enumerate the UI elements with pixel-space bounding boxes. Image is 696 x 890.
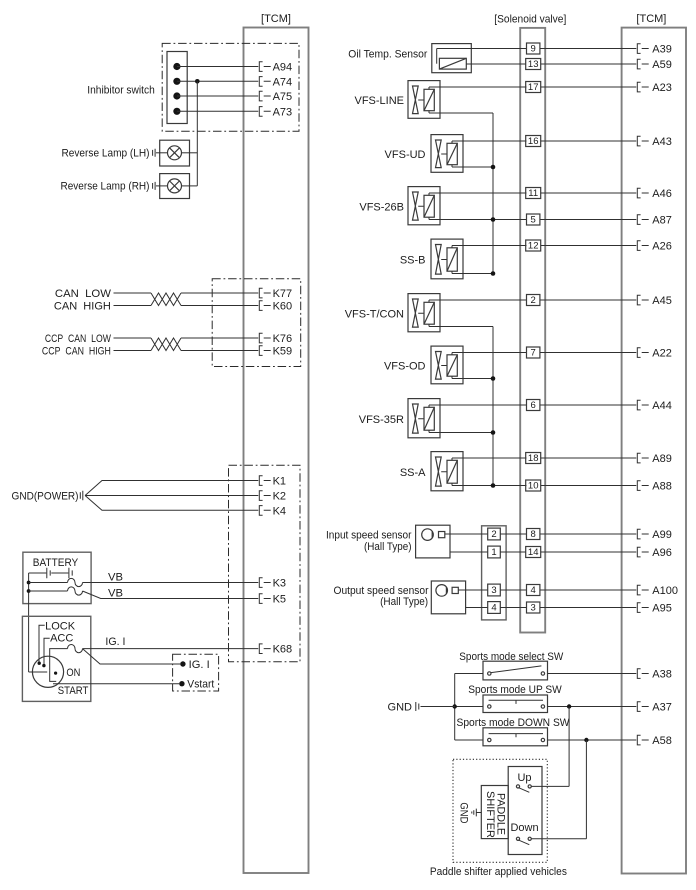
svg-text:A87: A87	[652, 215, 672, 227]
wire IG.I branch to node	[83, 649, 181, 664]
svg-text:3: 3	[531, 603, 536, 614]
junction bus junction VFS-OD	[491, 376, 496, 381]
svg-text:1: 1	[491, 547, 496, 558]
wire battery to fuse VB1	[29, 582, 68, 584]
inhibitor switch body	[167, 52, 187, 124]
wire pin 18 to A89	[541, 457, 637, 459]
paddle down switch	[516, 837, 531, 845]
wire pin 12 to A26	[541, 245, 637, 247]
left TCM module box	[244, 28, 309, 874]
svg-text:A89: A89	[652, 453, 672, 465]
wire pin 3 to A95	[540, 607, 636, 609]
connector pin A75	[259, 91, 270, 101]
wire pin 1 to pin 14	[500, 551, 525, 553]
connector pin A99	[637, 529, 648, 539]
inhibitor switch contact 1	[173, 63, 180, 70]
svg-text:(Hall Type): (Hall Type)	[380, 596, 428, 608]
wire START to Vstart node	[53, 683, 179, 685]
svg-text:GND: GND	[388, 701, 413, 713]
svg-text:11: 11	[528, 188, 538, 199]
connector pin A100	[637, 585, 648, 595]
wire GND(POWER) to K2	[85, 495, 258, 497]
svg-text:Reverse Lamp (LH): Reverse Lamp (LH)	[62, 148, 150, 160]
svg-text:SHIFTER: SHIFTER	[484, 791, 496, 838]
pin 9 solenoid valve connector	[527, 43, 540, 55]
svg-text:IG. I: IG. I	[105, 636, 125, 648]
svg-text:K5: K5	[273, 594, 286, 606]
wire CCP CAN LOW to K76	[181, 337, 258, 339]
ignition switch rotor	[32, 656, 63, 687]
connector pin A58	[637, 735, 648, 745]
wire DOWN SW to A58	[548, 739, 637, 741]
wire CCP CAN HIGH to K59	[181, 350, 258, 352]
svg-text:VFS-LINE: VFS-LINE	[354, 95, 404, 107]
paddle up switch	[516, 785, 531, 792]
solenoid valve SS-A	[431, 452, 463, 491]
wire reverse lamp RH lead-in	[156, 185, 168, 187]
svg-text:Inhibitor switch: Inhibitor switch	[87, 84, 155, 96]
junction battery bus tap 2	[27, 589, 31, 593]
speed sensor connector column	[482, 526, 507, 620]
svg-text:K59: K59	[273, 346, 293, 358]
svg-text:A88: A88	[652, 481, 672, 493]
junction ACC contact	[42, 664, 45, 667]
wire pin 2 to pin 8	[500, 533, 526, 535]
svg-text:Paddle shifter applied vehicle: Paddle shifter applied vehicles	[430, 866, 567, 878]
solenoid ground bus segment 2	[492, 327, 494, 486]
junction node reverse-lamp tap on A74 wire	[195, 79, 200, 84]
svg-text:8: 8	[531, 529, 536, 540]
svg-text:GND(POWER): GND(POWER)	[12, 490, 79, 502]
ground mark switches	[416, 702, 419, 711]
solenoid valve VFS-26B	[408, 187, 440, 225]
wire VFS-UD to solenoid ground bus	[452, 166, 493, 168]
pin 17 solenoid valve connector	[526, 82, 541, 94]
svg-text:IG. I: IG. I	[189, 659, 210, 671]
svg-text:A99: A99	[652, 529, 672, 541]
svg-text:A43: A43	[652, 136, 672, 148]
wire pin 8 to A99	[540, 533, 636, 535]
svg-text:VFS-UD: VFS-UD	[385, 149, 426, 161]
svg-text:Vstart: Vstart	[187, 679, 214, 691]
svg-text:CAN LOW: CAN LOW	[55, 288, 112, 300]
svg-text:[TCM]: [TCM]	[261, 13, 291, 25]
input speed sensor (hall type)	[416, 525, 450, 558]
connector pin A73	[259, 107, 270, 117]
pin 4 solenoid valve connector	[527, 585, 540, 597]
fuse VB2	[68, 587, 83, 595]
svg-text:[Solenoid valve]: [Solenoid valve]	[494, 14, 566, 26]
wire pin 17 to A23	[541, 86, 637, 88]
svg-text:K76: K76	[273, 333, 293, 345]
ACC leader	[44, 638, 50, 664]
ignition key lever	[29, 671, 57, 682]
svg-text:18: 18	[528, 453, 539, 464]
connector pin A45	[637, 295, 648, 305]
wire pin 2 to A45	[540, 299, 636, 301]
svg-text:A59: A59	[652, 59, 672, 71]
pin 10 solenoid valve connector	[526, 480, 541, 492]
svg-text:VB: VB	[108, 588, 123, 600]
wire GND(POWER) to K1	[85, 481, 258, 496]
svg-text:2: 2	[531, 295, 536, 306]
svg-text:A37: A37	[652, 702, 672, 714]
svg-text:6: 6	[531, 400, 536, 411]
LOCK leader	[39, 625, 45, 662]
wire reverse lamp LH to feed	[182, 152, 198, 154]
connector pin A59	[637, 59, 648, 69]
battery cells symbol	[29, 568, 69, 578]
svg-text:Up: Up	[517, 772, 531, 784]
wire input sensor supply to pin 1	[450, 551, 488, 553]
junction node A37 / paddle up tap	[567, 704, 571, 708]
wire VB to K3	[83, 582, 259, 584]
junction bus junction VFS-UD	[491, 165, 496, 170]
svg-text:BATTERY: BATTERY	[33, 557, 79, 569]
svg-text:[TCM]: [TCM]	[636, 13, 666, 25]
pin 3 speed sensor connector	[488, 584, 501, 596]
svg-text:A94: A94	[273, 62, 293, 74]
wire SS-A to pin 10 across bus	[452, 485, 527, 487]
pin 12 solenoid valve connector	[526, 240, 541, 252]
svg-text:ON: ON	[66, 667, 80, 679]
solenoid valve VFS-LINE	[408, 81, 440, 119]
connector pin A23	[637, 82, 648, 92]
svg-text:CAN HIGH: CAN HIGH	[54, 300, 111, 312]
wire paddle down to A58 branch	[585, 740, 587, 839]
ignition switch box	[22, 616, 90, 701]
connector pin K3	[259, 578, 270, 588]
wire GND lead to switch bus	[421, 706, 455, 708]
output speed sensor (hall type)	[431, 581, 465, 614]
junction bus junction SS-B	[491, 271, 496, 276]
svg-text:A39: A39	[652, 44, 672, 56]
wire reverse lamp LH lead-in	[156, 152, 168, 154]
paddle shifter dotted box	[453, 759, 547, 862]
wire ignition to fuse IG	[50, 649, 68, 671]
svg-text:K1: K1	[273, 476, 286, 488]
wire inhibitor contact 3 to A75	[177, 95, 258, 97]
svg-text:A26: A26	[652, 241, 672, 253]
wire oil temp sensor to pin 13	[466, 63, 525, 65]
svg-text:K60: K60	[273, 301, 293, 313]
CAN harness dash-dot box	[212, 279, 301, 367]
wire VFS-26B to pin 5 across bus	[429, 219, 527, 221]
connector pin K60	[259, 301, 270, 311]
svg-text:A46: A46	[652, 188, 672, 200]
wire battery negative drop to ignition switch	[28, 573, 30, 672]
sports mode DOWN switch	[483, 728, 548, 746]
wire CAN HIGH into twisted pair	[114, 305, 152, 307]
connector pin A37	[637, 702, 648, 712]
wire SS-B to solenoid ground bus	[452, 273, 493, 275]
wire pin 9 to A39	[540, 48, 636, 50]
connector pin K1	[259, 476, 270, 486]
junction bus junction pin5 line	[491, 217, 496, 222]
svg-text:VFS-OD: VFS-OD	[384, 361, 426, 373]
svg-text:2: 2	[491, 529, 496, 540]
svg-text:Sports mode UP SW: Sports mode UP SW	[468, 684, 562, 696]
ground mark paddle	[472, 809, 482, 817]
wire output sensor signal to pin 3	[458, 589, 487, 591]
junction ON contact	[54, 672, 57, 675]
svg-text:14: 14	[528, 547, 539, 558]
wire DOWN SW left lead	[455, 739, 483, 741]
wire select SW to A38	[548, 673, 637, 675]
node Vstart	[179, 681, 184, 686]
power ground harness dash-dot box	[229, 465, 301, 662]
svg-text:Input speed sensor: Input speed sensor	[326, 530, 412, 542]
wire pin 11 to A46	[541, 192, 637, 194]
wire reverse lamp RH to feed	[182, 185, 198, 187]
connector mark GND(POWER)	[80, 491, 83, 500]
junction switch ground bus tap	[453, 704, 457, 708]
reverse lamp LH	[160, 140, 190, 166]
connector pin A74	[259, 77, 270, 87]
wire paddle down lead	[531, 838, 586, 840]
svg-text:CCP CAN LOW: CCP CAN LOW	[45, 333, 111, 345]
connector pin A43	[637, 136, 648, 146]
svg-text:12: 12	[528, 241, 539, 252]
wire SS-A to pin 18	[452, 457, 527, 459]
svg-text:START: START	[58, 685, 89, 697]
wire VFS-35R to solenoid ground bus 2	[429, 432, 493, 434]
right TCM module box	[622, 28, 686, 874]
svg-text:CCP CAN HIGH: CCP CAN HIGH	[42, 345, 111, 357]
wire pin 3 to pin 4	[500, 589, 526, 591]
reverse lamp RH	[160, 174, 190, 199]
svg-text:5: 5	[531, 215, 536, 226]
svg-text:K77: K77	[273, 288, 293, 300]
twisted pair CAN	[151, 293, 181, 306]
svg-text:10: 10	[528, 481, 539, 492]
fuse IG.I	[68, 645, 83, 653]
wire UP SW left lead	[455, 706, 483, 708]
svg-text:A73: A73	[273, 106, 293, 118]
connector pin K5	[259, 594, 270, 604]
svg-text:Down: Down	[510, 822, 538, 834]
svg-text:7: 7	[531, 348, 536, 359]
wire inhibitor contact 2 to A74	[177, 80, 258, 82]
connector pin K2	[259, 491, 270, 501]
svg-text:16: 16	[528, 136, 539, 147]
svg-text:A45: A45	[652, 295, 672, 307]
wire output sensor supply to pin 4	[466, 607, 488, 609]
connector pin A88	[637, 481, 648, 491]
pin 2 speed sensor connector	[488, 528, 501, 540]
wire pin 5 to A87	[540, 219, 636, 221]
pin 16 solenoid valve connector	[526, 136, 541, 148]
svg-text:4: 4	[531, 585, 536, 596]
fuse VB1	[68, 578, 83, 586]
wire pin 4 to A100	[540, 589, 636, 591]
paddle up/down switch box	[508, 767, 542, 855]
wire inhibitor contact 4 to A73	[177, 110, 258, 112]
inhibitor switch contact 2	[173, 78, 180, 85]
connector pin K59	[259, 346, 270, 356]
svg-text:A58: A58	[652, 735, 672, 747]
wire VFS-26B to pin 11	[429, 192, 527, 194]
pin 8 solenoid valve connector	[527, 529, 540, 541]
svg-text:K3: K3	[273, 578, 286, 590]
svg-text:A100: A100	[652, 585, 678, 597]
inhibitor switch contact 4	[173, 108, 180, 115]
junction battery bus tap 1	[27, 581, 31, 585]
svg-text:A23: A23	[652, 82, 672, 94]
pin 11 solenoid valve connector	[526, 188, 541, 200]
svg-text:A22: A22	[652, 348, 672, 360]
pin 4 speed sensor connector	[488, 602, 501, 614]
svg-text:A75: A75	[273, 91, 293, 103]
wire pin 4 to pin 3	[500, 607, 526, 609]
connector pin A94	[259, 62, 270, 72]
svg-text:LOCK: LOCK	[45, 620, 76, 632]
svg-text:K68: K68	[273, 644, 293, 656]
pin 6 solenoid valve connector	[527, 400, 540, 412]
wire VFS-OD to pin 7	[452, 352, 527, 354]
wire VFS-LINE to solenoid ground bus	[429, 112, 493, 114]
pin 1 speed sensor connector	[488, 546, 501, 558]
solenoid valve connector column	[520, 28, 545, 633]
wire VFS-T/CON to pin 2	[429, 299, 527, 301]
junction bus junction VFS-35R	[491, 430, 496, 435]
sports mode UP switch	[483, 695, 548, 713]
battery box	[23, 552, 91, 603]
inhibitor switch contact 3	[173, 92, 180, 99]
svg-text:Output speed sensor: Output speed sensor	[334, 585, 429, 597]
svg-text:Reverse Lamp (RH): Reverse Lamp (RH)	[61, 181, 150, 193]
solenoid valve VFS-OD	[431, 346, 463, 384]
sports mode select switch	[483, 661, 548, 680]
wire paddle up lead	[531, 785, 569, 787]
inhibitor switch harness dash-dot box	[162, 43, 299, 131]
wire UP SW to A37	[548, 706, 637, 708]
solenoid valve VFS-T/CON	[408, 294, 440, 332]
svg-text:VFS-T/CON: VFS-T/CON	[345, 308, 404, 320]
wire CCP CAN HIGH into twisted pair	[114, 350, 152, 352]
connector mark reverse lamp LH	[153, 149, 156, 157]
junction bus junction SS-A pin10 line	[491, 483, 496, 488]
twisted pair CCP CAN	[151, 338, 181, 351]
wire SS-B to pin 12	[452, 245, 527, 247]
connector mark reverse lamp RH	[153, 182, 156, 190]
connector pin K68	[259, 644, 270, 654]
svg-text:ACC: ACC	[50, 633, 73, 645]
svg-text:VFS-35R: VFS-35R	[359, 414, 404, 426]
wire select SW left lead	[455, 673, 483, 675]
svg-text:Oil Temp. Sensor: Oil Temp. Sensor	[348, 48, 427, 60]
solenoid valve SS-B	[431, 239, 463, 279]
svg-text:13: 13	[528, 59, 539, 70]
wire pin 14 to A96	[541, 551, 637, 553]
pin 13 solenoid valve connector	[526, 59, 541, 71]
pin 14 solenoid valve connector	[526, 547, 541, 559]
wire battery to fuse VB2	[29, 590, 68, 592]
wire IG.I to K68	[83, 648, 259, 650]
solenoid valve VFS-35R	[408, 399, 440, 438]
wire oil temp sensor to pin 9	[437, 48, 527, 50]
wire CAN HIGH to K60	[181, 305, 258, 307]
solenoid ground bus segment 1	[492, 113, 494, 274]
wire VFS-UD to pin 16	[452, 140, 527, 142]
pin 2 solenoid valve connector	[527, 295, 540, 307]
svg-text:A38: A38	[652, 669, 672, 681]
wire VFS-LINE to pin 17	[429, 86, 527, 88]
svg-text:A95: A95	[652, 603, 672, 615]
svg-text:(Hall Type): (Hall Type)	[364, 541, 412, 553]
svg-text:SS-A: SS-A	[400, 467, 426, 479]
connector pin A38	[637, 669, 648, 679]
svg-text:K4: K4	[273, 505, 286, 517]
connector pin A22	[637, 348, 648, 358]
wire pin 7 to A22	[540, 352, 636, 354]
svg-text:4: 4	[491, 603, 496, 614]
connector pin K76	[259, 333, 270, 343]
svg-text:A44: A44	[652, 400, 672, 412]
connector pin A87	[637, 215, 648, 225]
connector pin A95	[637, 603, 648, 613]
connector pin A44	[637, 400, 648, 410]
wire VFS-35R to pin 6	[429, 404, 527, 406]
svg-text:Sports mode DOWN SW: Sports mode DOWN SW	[457, 717, 571, 729]
connector pin A96	[637, 547, 648, 557]
svg-text:K2: K2	[273, 491, 286, 503]
wire CAN LOW into twisted pair	[114, 292, 152, 294]
IG/Vstart dash-dot box	[173, 654, 219, 691]
wire paddle up to A37 branch	[568, 707, 570, 787]
wire pin 10 to A88	[541, 485, 637, 487]
svg-text:17: 17	[528, 82, 539, 93]
junction node A58 / paddle down tap	[584, 738, 588, 742]
paddle shifter body	[481, 786, 508, 839]
wire reverse lamp feed vertical	[196, 81, 198, 186]
pin 7 solenoid valve connector	[527, 347, 540, 359]
svg-text:3: 3	[491, 585, 496, 596]
svg-text:A96: A96	[652, 547, 672, 559]
wire inhibitor contact 1 to A94	[177, 66, 258, 68]
svg-text:SS-B: SS-B	[400, 255, 426, 267]
svg-text:GND: GND	[458, 802, 470, 823]
wire pin 16 to A43	[541, 140, 637, 142]
connector pin A39	[637, 44, 648, 54]
connector pin K4	[259, 506, 270, 516]
wire VB to K5	[83, 591, 259, 599]
wire pin 6 to A44	[540, 404, 636, 406]
connector pin A26	[637, 241, 648, 251]
svg-text:9: 9	[531, 44, 536, 55]
solenoid valve VFS-UD	[431, 135, 463, 173]
pin 18 solenoid valve connector	[526, 453, 541, 465]
svg-text:VFS-26B: VFS-26B	[359, 201, 404, 213]
node IG. I	[180, 661, 185, 666]
wire VFS-T/CON to solenoid ground bus 2	[429, 326, 493, 328]
wire VFS-OD to solenoid ground bus 2	[452, 378, 493, 380]
pin 3 solenoid valve connector	[527, 602, 540, 614]
connector pin A89	[637, 453, 648, 463]
wire CCP CAN LOW into twisted pair	[114, 337, 152, 339]
connector pin K77	[259, 288, 270, 298]
wire GND(POWER) to K4	[85, 496, 258, 511]
switch ground bus	[454, 674, 456, 741]
svg-text:VB: VB	[108, 571, 123, 583]
wire CAN LOW to K77	[181, 292, 258, 294]
oil temperature sensor	[432, 44, 472, 73]
pin 5 solenoid valve connector	[527, 214, 540, 226]
wire pin 13 to A59	[541, 63, 637, 65]
connector pin A46	[637, 188, 648, 198]
wire input sensor signal to pin 2	[445, 533, 488, 535]
junction LOCK contact	[38, 662, 41, 665]
